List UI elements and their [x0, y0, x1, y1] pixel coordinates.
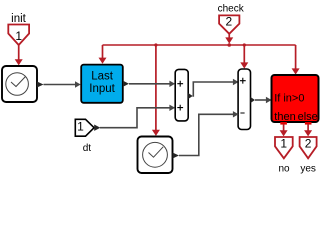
- svg-text:1: 1: [15, 29, 22, 43]
- outport yes: [300, 137, 317, 158]
- inport dt: [75, 119, 94, 136]
- svg-text:init: init: [11, 13, 27, 25]
- svg-text:If in>0: If in>0: [274, 93, 304, 105]
- inport check: [219, 15, 239, 33]
- svg-text:no: no: [278, 164, 290, 175]
- svg-text:1: 1: [77, 120, 84, 134]
- clock block Clock: [2, 66, 37, 102]
- red branch to If block: [295, 45, 297, 69]
- block Last Input: [81, 65, 123, 103]
- svg-text:dt: dt: [83, 143, 92, 154]
- output nub Last Input: [123, 81, 129, 87]
- red arrow into Last Input top: [102, 45, 104, 59]
- output nub Clock1: [173, 153, 180, 159]
- wire Last Input to Add1 in1: [129, 83, 170, 85]
- wire If to outport no: [283, 124, 285, 131]
- svg-text:else: else: [298, 111, 318, 123]
- sum block Add2: [238, 69, 250, 130]
- junction dot check: [227, 43, 231, 47]
- svg-text:check: check: [218, 4, 245, 15]
- svg-text:2: 2: [305, 137, 312, 151]
- if block output nub 1: [280, 122, 287, 125]
- output nub Add1: [188, 93, 193, 99]
- red arrow into Clock1 top: [155, 45, 157, 131]
- wire Add1 to Add2 in1: [193, 82, 234, 96]
- svg-text:Input: Input: [89, 83, 115, 95]
- svg-text:1: 1: [280, 137, 287, 151]
- wire Add2 to If: [255, 99, 267, 101]
- output nub Clock: [37, 82, 44, 88]
- svg-text:2: 2: [225, 15, 232, 29]
- sum block Add1: [175, 69, 188, 121]
- outport no: [275, 137, 293, 158]
- wire If to outport yes: [307, 124, 309, 131]
- wire init to Clock: [18, 44, 20, 60]
- inport init: [8, 25, 29, 46]
- wire check to bus: [228, 34, 230, 38]
- clock block Clock1: [138, 137, 173, 174]
- junction dot clock branch: [154, 43, 157, 46]
- junction dot add2 branch: [243, 43, 246, 46]
- if block output nub 2: [305, 122, 312, 125]
- if block: [272, 75, 319, 122]
- svg-text:yes: yes: [300, 164, 316, 175]
- wire Clock to Last Input: [44, 84, 76, 86]
- red arrow into Add2 top: [243, 45, 245, 63]
- output nub Add2: [251, 97, 256, 103]
- wire dt to Add1 in2: [100, 108, 170, 128]
- svg-text:then: then: [274, 111, 295, 123]
- arrow at dt tip: [94, 125, 100, 131]
- red bus: [103, 44, 296, 46]
- svg-text:Last: Last: [91, 70, 114, 82]
- wire Clock1 to Add2 in2: [179, 114, 234, 155]
